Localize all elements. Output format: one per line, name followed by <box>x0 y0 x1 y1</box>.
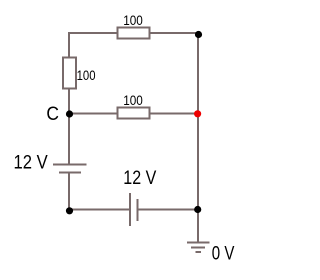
svg-text:100: 100 <box>123 13 143 28</box>
svg-text:0 V: 0 V <box>212 243 235 264</box>
wire left rail upper segment <box>68 32 70 58</box>
battery B1 (left, 12 V) <box>53 165 87 173</box>
wire top-left horizontal segment <box>68 32 118 34</box>
value label 100 (R2) <box>77 68 96 83</box>
resistor R3 (middle, 100 ohm) <box>118 108 150 119</box>
resistor R2 (left vertical, 100 ohm) <box>63 58 76 89</box>
net label 0 V (ground) <box>212 243 235 264</box>
svg-text:12 V: 12 V <box>14 153 48 174</box>
svg-text:C: C <box>46 104 59 125</box>
wire left battery top lead <box>68 114 70 164</box>
wire bottom row left segment <box>69 209 129 211</box>
value label 100 (R3) <box>123 93 143 108</box>
ground symbol <box>187 243 210 253</box>
wire top-right horizontal segment <box>150 32 199 34</box>
svg-text:100: 100 <box>77 68 96 83</box>
wire right rail vertical <box>197 32 199 242</box>
wire left rail between resistor and node C <box>68 89 70 115</box>
node bottom-right (junction dot) <box>194 206 201 213</box>
value label 100 (R1) <box>123 13 143 28</box>
svg-text:100: 100 <box>123 93 143 108</box>
wire left battery bottom lead <box>68 174 70 211</box>
wire middle row left segment <box>69 113 118 115</box>
value label 12 V (B2) <box>123 168 156 189</box>
node label C <box>46 104 59 125</box>
wire bottom row right segment <box>139 209 199 211</box>
wire middle row right segment <box>150 113 199 115</box>
value label 12 V (B1) <box>14 153 48 174</box>
svg-text:12 V: 12 V <box>123 168 156 189</box>
node red highlighted (right middle) <box>194 110 201 117</box>
battery B2 (bottom, 12 V) <box>130 193 138 226</box>
node bottom-left (junction dot) <box>66 207 73 214</box>
node top-right (junction dot) <box>195 31 202 38</box>
node C (junction dot) <box>66 110 73 117</box>
resistor R1 (top, 100 ohm) <box>118 28 150 39</box>
